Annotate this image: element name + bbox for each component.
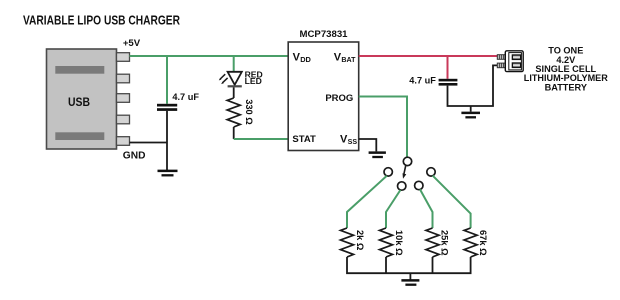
- wire R5 bottom: [233, 127, 235, 139]
- switch contact 2: [398, 182, 406, 190]
- USB pin 4: [117, 115, 130, 124]
- pin label VDD: [293, 52, 312, 65]
- pin label VBAT: [334, 52, 356, 65]
- resistor R5 330 ohm: [227, 98, 240, 127]
- svg-text:LED: LED: [245, 76, 262, 86]
- USB pin 1 (+5V): [117, 53, 130, 62]
- capacitor C1 4.7uF: [157, 104, 177, 111]
- label RED LED: [245, 69, 263, 86]
- wire STAT to U1: [234, 138, 289, 140]
- switch contact 4: [427, 168, 435, 176]
- note battery text: [524, 46, 608, 93]
- wire +5V drop to LED D1: [233, 56, 235, 72]
- svg-text:GND: GND: [123, 151, 146, 162]
- capacitor C2 4.7uF: [439, 79, 458, 86]
- wire PROG to switch: [359, 97, 407, 158]
- wire contact2 to R2: [386, 190, 400, 228]
- resistor R3 25k: [426, 228, 439, 257]
- wire contact1 to R1: [347, 176, 387, 228]
- resistor R1 2k: [341, 228, 354, 257]
- wire contact4 to R4: [433, 176, 471, 228]
- wire C2 bottom / battery negative: [448, 65, 498, 106]
- svg-text:STAT: STAT: [292, 134, 316, 145]
- switch contact 3: [415, 181, 423, 189]
- pin label VSS: [340, 133, 357, 146]
- svg-text:BATTERY: BATTERY: [545, 82, 587, 92]
- wire red drop to C2: [447, 56, 449, 79]
- svg-text:USB: USB: [68, 95, 90, 109]
- svg-text:67k Ω: 67k Ω: [478, 230, 488, 256]
- switch wiper arrow: [403, 166, 407, 179]
- svg-text:10k Ω: 10k Ω: [394, 230, 404, 256]
- op-amp U1 MCP73831 body: [288, 42, 359, 151]
- svg-text:25k Ω: 25k Ω: [439, 230, 449, 256]
- svg-text:BAT: BAT: [341, 56, 356, 64]
- resistor R2 10k: [380, 228, 393, 257]
- wire ground rail of resistors: [347, 257, 471, 273]
- wire GND from USB pin5: [130, 142, 168, 144]
- battery connector J1: [497, 51, 523, 72]
- switch SW1 common pole: [403, 157, 411, 165]
- wire C1 bottom to ground: [166, 111, 168, 170]
- svg-text:DD: DD: [300, 55, 311, 64]
- wire VBAT red rail: [359, 55, 498, 57]
- wire +5V drop to C1: [166, 56, 168, 104]
- svg-text:+5V: +5V: [123, 38, 141, 49]
- svg-text:MCP73831: MCP73831: [300, 29, 349, 40]
- wire contact3 to R3: [420, 189, 433, 228]
- wire VSS to ground: [359, 139, 377, 151]
- USB connector body: [47, 49, 117, 149]
- wire +5V rail from USB pin1 to U1 VDD: [130, 55, 289, 57]
- ground (USB / C1): [158, 171, 178, 175]
- resistor R4 67k: [464, 228, 477, 257]
- svg-text:2k Ω: 2k Ω: [355, 230, 365, 251]
- svg-text:SS: SS: [348, 138, 358, 146]
- switch contact 1: [384, 168, 392, 176]
- ground (VSS): [369, 153, 386, 157]
- LED D1 (RED LED): [219, 72, 242, 88]
- USB pin 3: [117, 94, 130, 103]
- svg-text:4.7 uF: 4.7 uF: [172, 92, 199, 102]
- USB pin 2: [117, 74, 130, 83]
- svg-text:PROG: PROG: [325, 93, 353, 104]
- svg-text:VARIABLE LIPO USB CHARGER: VARIABLE LIPO USB CHARGER: [23, 14, 180, 28]
- svg-text:330 Ω: 330 Ω: [244, 99, 254, 125]
- svg-text:4.7 uF: 4.7 uF: [409, 75, 436, 85]
- wire LED cathode to R5: [233, 87, 235, 98]
- USB pin 5 (GND): [117, 137, 130, 146]
- ground (resistor rail): [401, 273, 419, 285]
- ground (battery): [461, 106, 480, 117]
